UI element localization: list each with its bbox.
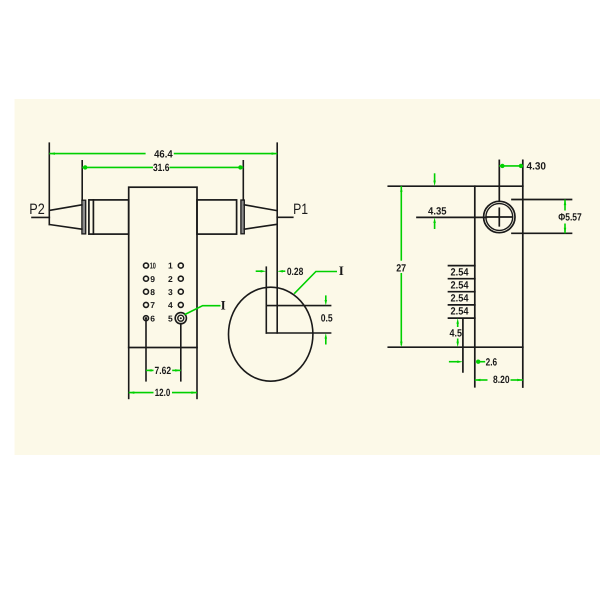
P1 fiber line [277,216,293,218]
crosshair vertical [498,208,500,226]
dim 8.20 [475,379,488,381]
phi5.57 extension top [512,199,572,201]
right band [241,200,244,234]
svg-text:4.30: 4.30 [527,161,547,173]
pin 2 [178,276,183,281]
svg-text:2.6: 2.6 [486,356,498,368]
pin 5 center dot [180,317,182,319]
left cylinder inner cap line [92,200,94,234]
detail circle [229,287,313,381]
svg-text:0.5: 0.5 [321,312,333,324]
svg-text:7.62: 7.62 [155,365,172,377]
pin circles [144,263,187,324]
pin number labels [150,261,173,324]
svg-text:10: 10 [150,261,156,271]
svg-text:27: 27 [396,262,406,274]
svg-text:I: I [221,298,226,313]
2.54 tick 3 [449,291,475,293]
body bottom left extension [128,348,130,399]
left cylinder [89,200,129,234]
dim 2.6 [449,361,459,363]
dim 46.4 line [49,153,145,155]
dim 4.35 arrows [434,173,436,181]
svg-text:1: 1 [168,261,173,271]
4.35 leader line [417,216,487,218]
cream paper background [15,99,600,455]
dim 4.5 line [457,323,459,328]
pin6 extension line [145,318,147,381]
pin 3 [178,289,183,294]
svg-text:Φ5.57: Φ5.57 [558,212,582,224]
svg-text:7: 7 [150,300,155,310]
leader detail to I [294,272,337,294]
pin 6 [144,316,149,321]
pin 4 [178,302,183,307]
dim phi5.57 line [564,200,566,211]
svg-text:12.0: 12.0 [155,387,171,399]
pin 1 [178,263,183,268]
detail step line upper [266,305,330,307]
dim 4.30 line with dots [499,165,523,167]
pin 10 [144,263,149,268]
2.54 tick 5 [449,317,475,319]
pin 6 center dot [145,317,147,319]
body outline [129,187,197,347]
svg-text:3: 3 [168,287,173,297]
svg-text:8.20: 8.20 [493,374,510,386]
extension 4.30 left (hole center) [498,160,500,201]
svg-text:4.35: 4.35 [428,206,447,218]
svg-text:4: 4 [168,300,173,310]
2.54 tick 1 [449,265,475,267]
dim 27 line [400,186,402,261]
extension line 31.6 left [81,161,83,200]
dim 31.6 line [82,166,153,168]
2.54 tick 4 [449,304,475,306]
svg-text:31.6: 31.6 [153,162,170,174]
svg-text:2.54: 2.54 [451,306,469,318]
phi5.57 extension bottom [512,232,572,234]
dim 7.62 line [146,369,154,371]
P2 fiber line [32,216,49,218]
leader pin5 to I [185,306,221,315]
2.54 tick 2 [449,278,475,280]
svg-text:I: I [339,263,344,278]
svg-text:8: 8 [150,287,155,297]
extension line 46.4 right / detail pin line B [276,143,278,333]
dim 0.28 arrows [256,270,262,272]
svg-text:46.4: 46.4 [154,148,173,160]
svg-text:5: 5 [168,313,173,323]
extension line 31.6 right [242,161,244,200]
left cone [49,205,82,229]
side body right edge (with 4.30 and 8.20 extensions) [522,160,524,387]
pin 5 outer [175,313,186,324]
svg-text:6: 6 [150,313,155,323]
extension line 46.4 left (cone tip) [48,143,50,224]
crosshair horizontal [487,216,511,218]
dim 12.0 line [129,392,154,394]
pin 9 [144,276,149,281]
pin 7 [144,302,149,307]
right cylinder [197,200,237,234]
svg-text:P2: P2 [29,201,45,218]
pin 8 [144,289,149,294]
hole outer circle [484,201,515,232]
hole inner circle [486,204,513,231]
2.6 extension line [462,319,464,372]
pin5 extension line [180,324,182,381]
svg-text:2.54: 2.54 [451,293,469,305]
side top edge extended [388,185,523,187]
body bottom right extension [196,348,198,399]
detail step line lower [266,332,330,334]
dim 0.5 arrows [325,295,327,301]
side body left edge [474,186,476,387]
right cone [244,205,276,229]
svg-text:P1: P1 [293,201,308,218]
svg-text:4.5: 4.5 [450,327,463,339]
svg-text:0.28: 0.28 [287,266,304,278]
svg-text:2: 2 [168,274,173,284]
svg-text:9: 9 [150,274,155,284]
svg-text:2.54: 2.54 [451,266,469,278]
side bottom edge extended [388,346,523,348]
detail pin line A [265,267,267,333]
pin 5 inner [178,315,184,321]
svg-text:2.54: 2.54 [451,279,469,291]
left band [82,200,86,234]
